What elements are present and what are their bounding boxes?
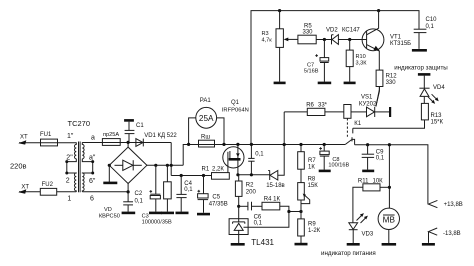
svg-text:R2: R2 [246, 183, 254, 189]
label R8 15K [308, 176, 319, 189]
svg-text:0,1: 0,1 [184, 187, 193, 193]
svg-text:R1: R1 [202, 167, 210, 173]
node VD4 terminal bar [418, 73, 431, 76]
wire main rail A [82, 143, 345, 145]
node riser bridge junction [170, 164, 173, 167]
svg-text:Q1: Q1 [231, 100, 240, 106]
svg-text:330: 330 [303, 30, 314, 36]
wire XT1 input lead [18, 140, 40, 144]
capacitor C2 [123, 192, 133, 212]
node divider junction [299, 210, 302, 213]
svg-text:пр25А: пр25А [103, 132, 119, 138]
svg-text:КС147: КС147 [342, 27, 360, 33]
ground C10 [412, 49, 427, 52]
node R2 bottom junction [237, 205, 240, 208]
zener VD 15-18v [268, 145, 284, 180]
wire Q1 source rail [238, 174, 270, 176]
node output arrow +13,8V [428, 200, 462, 208]
svg-text:1К: 1К [308, 165, 315, 171]
svg-text:R6: R6 [306, 102, 314, 108]
node PA1 left [187, 143, 190, 146]
capacitor C5 [198, 174, 209, 213]
svg-text:10К: 10К [373, 178, 384, 184]
svg-text:R9: R9 [308, 221, 316, 227]
resistor R9 [298, 219, 305, 243]
svg-text:15-18в: 15-18в [266, 183, 285, 189]
label R1 2,2K [202, 167, 225, 173]
label R12 330 [386, 73, 398, 86]
svg-text:VS1: VS1 [361, 95, 373, 101]
node VT1 collector junction [377, 9, 380, 12]
node VS1 cathode terminal bar [389, 107, 391, 117]
capacitor C4 [176, 174, 186, 212]
svg-text:VD: VD [104, 207, 112, 213]
wire primary tap jumper [65, 159, 76, 175]
node R4 junction [287, 210, 290, 213]
svg-text:15К: 15К [308, 183, 319, 189]
svg-text:Rш: Rш [201, 135, 210, 141]
fuse pr25A [102, 132, 120, 145]
svg-text:+13,8В: +13,8В [444, 202, 463, 208]
label R13 15K [431, 113, 444, 125]
svg-text:330: 330 [386, 80, 397, 86]
svg-text:1-2К: 1-2К [308, 228, 321, 234]
svg-text:0,1: 0,1 [426, 24, 435, 30]
svg-text:С4: С4 [184, 181, 192, 187]
svg-text:IRFP064N: IRFP064N [222, 108, 249, 114]
label C8 [328, 157, 349, 169]
svg-text:a": a" [89, 154, 96, 161]
wire XT2 input lead [18, 189, 40, 193]
svg-text:2": 2" [66, 155, 73, 162]
label C4 [184, 181, 193, 193]
ground C7 [318, 82, 332, 85]
label R11 10K [358, 178, 383, 184]
svg-text:0,1: 0,1 [254, 220, 263, 226]
wire TL431 anode [238, 235, 240, 244]
ground R9 [295, 243, 308, 246]
node output arrow -13,8V [429, 228, 461, 243]
ground C3 [149, 212, 162, 215]
node PA1 right [222, 143, 225, 146]
wire secondary bottom to bridge [82, 191, 128, 193]
resistor R10 [346, 40, 353, 82]
capacitor C6 [239, 202, 262, 211]
fuse FU2 [40, 188, 76, 195]
capacitor C7 [315, 38, 328, 82]
label R10 3,3K [356, 54, 368, 67]
label C2 [135, 191, 144, 204]
node R7 top [299, 143, 302, 146]
svg-text:С9: С9 [376, 149, 384, 155]
svg-text:VD4: VD4 [433, 85, 445, 91]
label C7 5/16V [304, 62, 319, 74]
svg-text:0,1: 0,1 [135, 198, 144, 204]
label R9 1-2K [308, 221, 321, 234]
wire R4 to divider [244, 206, 302, 227]
capacitor 0,1 snubber [248, 143, 254, 177]
svg-text:3,3К: 3,3К [356, 61, 368, 67]
svg-text:С1: С1 [136, 123, 144, 129]
capacitor C8 [319, 145, 329, 170]
resistor R8 potentiometer [298, 169, 310, 219]
node zener riser junction [283, 143, 286, 146]
bridge rectifier VD KBPC50 [109, 142, 147, 192]
label R2 200 [246, 183, 257, 196]
transistor VT1 KT315B [362, 11, 384, 71]
resistor R12 [376, 70, 383, 106]
svg-text:FU1: FU1 [40, 132, 52, 138]
label C3 [142, 213, 172, 225]
zener VD2 KC147 [332, 35, 367, 45]
wire bridge plus rail [147, 164, 183, 166]
wire MB riser [388, 145, 390, 208]
label C5 [209, 195, 228, 208]
ground VD3 [347, 243, 360, 246]
ground C8 [319, 170, 331, 173]
ground bridge minus [103, 165, 117, 183]
svg-text:индикатор питания: индикатор питания [321, 250, 376, 257]
label C9 [376, 149, 385, 161]
svg-text:6": 6" [89, 178, 96, 185]
svg-text:ТС270: ТС270 [68, 119, 91, 128]
svg-text:47/35В: 47/35В [209, 201, 228, 207]
svg-text:К1: К1 [354, 121, 361, 127]
svg-text:VD1 КД 522: VD1 КД 522 [144, 133, 177, 139]
label Q1 [222, 100, 249, 113]
node Q1 drain junction [236, 143, 239, 146]
svg-text:FU2: FU2 [42, 182, 54, 188]
resistor R2 [235, 175, 242, 219]
svg-text:R5: R5 [304, 24, 312, 30]
svg-text:4,7к: 4,7к [262, 38, 273, 44]
svg-text:КВРС50: КВРС50 [99, 214, 120, 220]
LED VD3 [349, 213, 368, 243]
transformer T1 TC270 [68, 119, 91, 192]
ground MB [382, 243, 397, 246]
label R3 4,7k [262, 31, 273, 44]
label winding terminals [66, 133, 96, 202]
motor MB [378, 208, 399, 243]
svg-text:VD3: VD3 [362, 232, 374, 238]
svg-text:индикатор защиты: индикатор защиты [394, 64, 448, 71]
svg-text:PA1: PA1 [200, 98, 212, 104]
ammeter PA1 [189, 107, 224, 144]
svg-text:200: 200 [246, 190, 257, 196]
node plus rail bleeder junction [166, 164, 169, 167]
svg-text:15*К: 15*К [431, 119, 444, 125]
capacitor C3 [150, 165, 161, 212]
svg-text:КТ315Б: КТ315Б [390, 41, 411, 47]
svg-text:R12: R12 [386, 73, 398, 79]
resistor R6 [284, 108, 344, 115]
wire R6 branch riser [283, 112, 285, 145]
ground TL431 [231, 243, 245, 246]
ground -13,8V [422, 243, 435, 246]
node R10 top junction [348, 38, 351, 41]
svg-text:R8: R8 [308, 176, 316, 182]
ground R10 [344, 82, 356, 85]
label VT1 KT315B [390, 34, 411, 47]
IC U1 TL431 [229, 219, 248, 235]
ground C9 [362, 170, 374, 173]
svg-text:1: 1 [67, 196, 71, 203]
svg-text:R4 1К: R4 1К [264, 197, 281, 203]
ground C5 [197, 213, 210, 216]
node bridge top junction [127, 141, 130, 144]
node MB riser top [388, 143, 391, 146]
resistor R3 potentiometer [276, 11, 298, 82]
label R5 330 [303, 24, 314, 36]
svg-text:6: 6 [90, 196, 94, 203]
wire secondary tap jumper [82, 159, 94, 175]
svg-text:С5: С5 [212, 195, 220, 201]
resistor R11 [353, 184, 390, 223]
svg-text:R7: R7 [308, 158, 316, 164]
node R11 right junction [388, 186, 391, 189]
node bridge minus junction [108, 164, 111, 167]
svg-text:TL431: TL431 [251, 238, 274, 247]
node C8 top [323, 143, 326, 146]
capacitor C10 [414, 29, 427, 49]
svg-text:a: a [91, 135, 95, 142]
ground bleeder [161, 212, 174, 215]
resistor R4 [262, 202, 280, 210]
svg-text:100/16В: 100/16В [328, 163, 349, 169]
svg-text:XT: XT [20, 134, 28, 140]
wire K1 linkage dashed [346, 118, 348, 137]
node plus rail C3 junction [154, 164, 157, 167]
LED VD4 [419, 76, 438, 104]
label R6 33 [306, 102, 327, 108]
ground R3 [274, 82, 286, 85]
svg-text:R13: R13 [431, 113, 443, 119]
wire K1 contact blade [345, 128, 354, 145]
svg-text:R10: R10 [356, 54, 366, 60]
label VS1 KU202 [359, 95, 377, 108]
svg-text:5/16В: 5/16В [304, 68, 319, 74]
resistor R1 [212, 173, 230, 180]
label C10 [426, 17, 438, 30]
resistor bleeder [164, 165, 172, 212]
label R7 1K [308, 158, 316, 171]
wire top rail [251, 11, 419, 145]
thyristor VS1 [351, 87, 389, 118]
label C6 [254, 215, 263, 227]
svg-text:100000/35В: 100000/35В [142, 219, 172, 225]
resistor R7 [298, 145, 305, 170]
node R3 top junction [278, 9, 281, 12]
relay K1 coil [344, 105, 351, 119]
label VD2 KC147 [326, 27, 360, 33]
svg-text:220в: 220в [10, 161, 27, 170]
wire second riser up to main rail [183, 145, 188, 166]
ground C2 [122, 212, 136, 215]
wire riser VD1 rail down to gate feed [170, 143, 172, 176]
label VD KBPC50 [99, 207, 120, 219]
resistor R5 [298, 35, 332, 44]
svg-text:КУ202: КУ202 [359, 101, 377, 107]
svg-text:R3: R3 [262, 31, 269, 37]
svg-text:-13,8В: -13,8В [443, 231, 461, 237]
svg-text:0,1: 0,1 [255, 152, 264, 158]
svg-text:2,2К: 2,2К [212, 167, 224, 173]
ground C4 [176, 212, 189, 215]
wire protection branch [353, 120, 425, 128]
svg-text:МВ: МВ [383, 216, 396, 225]
node bridge bottom junction [127, 190, 130, 193]
svg-text:VT1: VT1 [390, 34, 402, 40]
fuse FU1 [41, 139, 77, 146]
diode VD1 [136, 139, 143, 147]
svg-text:C10: C10 [426, 17, 438, 23]
svg-text:R11: R11 [358, 178, 369, 184]
svg-text:1": 1" [67, 133, 74, 140]
transistor Q1 IRFP064N [223, 144, 244, 174]
node source junction [236, 173, 239, 176]
svg-text:С2: С2 [135, 191, 143, 197]
capacitor C9 [362, 143, 374, 170]
wire output rail [355, 145, 428, 204]
svg-text:0,1: 0,1 [376, 156, 385, 162]
wire gate feed [171, 175, 211, 177]
svg-text:25A: 25A [199, 114, 214, 123]
svg-text:33*: 33* [318, 102, 328, 108]
svg-text:VD2: VD2 [326, 27, 338, 33]
resistor Rsh [199, 140, 215, 147]
svg-text:XT: XT [21, 185, 29, 191]
resistor R13 [421, 103, 428, 120]
svg-text:2: 2 [66, 178, 70, 185]
capacitor C1 [124, 120, 134, 142]
